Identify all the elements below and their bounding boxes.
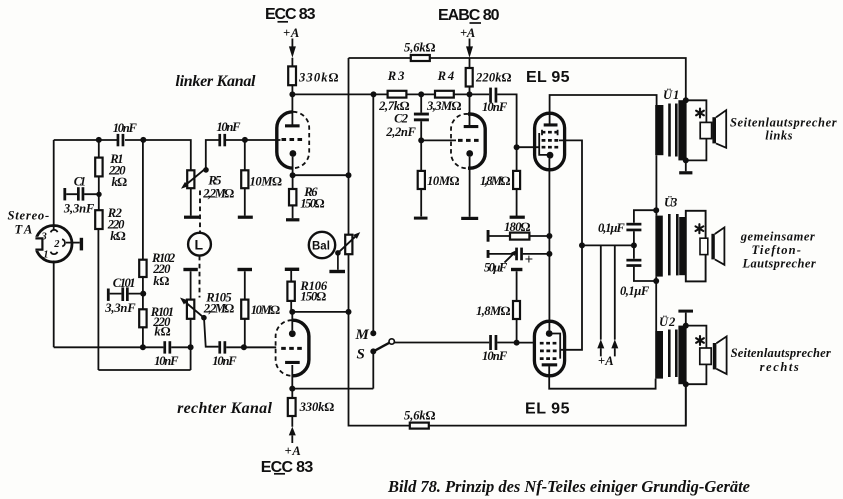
svg-text:Seitenlautsprecher: Seitenlautsprecher: [730, 115, 837, 129]
svg-text:330kΩ: 330kΩ: [299, 400, 335, 414]
svg-text:Lautsprecher: Lautsprecher: [742, 256, 816, 270]
svg-text:150Ω: 150Ω: [300, 196, 324, 210]
svg-text:1: 1: [43, 249, 48, 260]
svg-text:ECC 83: ECC 83: [261, 459, 314, 476]
svg-text:10nF: 10nF: [212, 354, 237, 368]
svg-text:R4: R4: [437, 69, 454, 83]
svg-text:1,8MΩ: 1,8MΩ: [476, 304, 511, 318]
svg-text:150Ω: 150Ω: [300, 290, 326, 304]
svg-text:2,2MΩ: 2,2MΩ: [203, 302, 235, 316]
svg-text:5,6kΩ: 5,6kΩ: [404, 40, 436, 54]
svg-text:kΩ: kΩ: [110, 229, 126, 243]
svg-text:links: links: [765, 128, 792, 142]
svg-text:10nF: 10nF: [113, 121, 138, 135]
svg-text:kΩ: kΩ: [153, 274, 169, 288]
svg-text:1,8MΩ: 1,8MΩ: [480, 174, 511, 188]
svg-text:3,3MΩ: 3,3MΩ: [426, 99, 462, 113]
svg-text:Ü1: Ü1: [663, 88, 679, 102]
svg-text:Ü3: Ü3: [664, 195, 677, 209]
svg-text:kΩ: kΩ: [112, 175, 128, 189]
svg-text:R3: R3: [387, 69, 404, 83]
svg-text:+: +: [525, 252, 533, 268]
svg-text:C101: C101: [113, 276, 136, 290]
svg-text:2: 2: [53, 239, 60, 250]
svg-text:10MΩ: 10MΩ: [250, 175, 283, 189]
svg-text:gemeinsamer: gemeinsamer: [740, 229, 815, 243]
svg-text:Ü2: Ü2: [659, 315, 676, 329]
svg-text:5,6kΩ: 5,6kΩ: [404, 408, 436, 422]
svg-text:10nF: 10nF: [154, 354, 179, 368]
svg-text:2,2MΩ: 2,2MΩ: [202, 186, 234, 200]
svg-text:+A: +A: [598, 354, 613, 368]
svg-text:EABC 80: EABC 80: [438, 7, 500, 24]
svg-text:C1: C1: [74, 175, 86, 189]
svg-text:ECC 83: ECC 83: [265, 6, 316, 23]
svg-text:rechter Kanal: rechter Kanal: [177, 400, 272, 417]
svg-text:180Ω: 180Ω: [504, 220, 531, 234]
svg-text:EL 95: EL 95: [526, 69, 570, 86]
svg-text:Bal: Bal: [312, 241, 330, 253]
svg-text:+A: +A: [460, 26, 475, 40]
svg-text:10nF: 10nF: [482, 100, 508, 114]
svg-text:10nF: 10nF: [482, 349, 508, 363]
svg-text:L: L: [195, 237, 204, 253]
svg-text:10nF: 10nF: [216, 120, 241, 134]
svg-text:C2: C2: [394, 111, 409, 125]
svg-text:M: M: [355, 327, 370, 343]
svg-text:220kΩ: 220kΩ: [475, 70, 512, 84]
svg-text:0,1µF: 0,1µF: [598, 221, 625, 235]
svg-text:10MΩ: 10MΩ: [427, 174, 460, 188]
svg-text:10MΩ: 10MΩ: [251, 303, 281, 317]
svg-text:TA: TA: [15, 223, 33, 237]
svg-text:330kΩ: 330kΩ: [298, 70, 339, 84]
svg-text:Tiefton-: Tiefton-: [752, 243, 801, 257]
svg-text:3,3nF: 3,3nF: [63, 201, 95, 215]
svg-text:Seitenlautsprecher: Seitenlautsprecher: [731, 346, 831, 360]
svg-text:3,3nF: 3,3nF: [104, 301, 136, 315]
svg-text:+A: +A: [285, 444, 301, 458]
svg-text:linker Kanal: linker Kanal: [175, 73, 256, 90]
svg-text:+A: +A: [283, 26, 299, 40]
svg-text:kΩ: kΩ: [154, 324, 170, 338]
svg-text:3: 3: [41, 232, 47, 243]
svg-text:Stereo-: Stereo-: [8, 209, 49, 223]
svg-text:S: S: [357, 346, 365, 362]
svg-text:0,1µF: 0,1µF: [620, 284, 650, 298]
svg-text:Bild 78. Prinzip des Nf-Teiles: Bild 78. Prinzip des Nf-Teiles einiger G…: [387, 477, 750, 496]
svg-text:2,2nF: 2,2nF: [385, 125, 416, 139]
svg-text:EL 95: EL 95: [525, 401, 570, 418]
svg-text:50µF: 50µF: [484, 260, 508, 274]
